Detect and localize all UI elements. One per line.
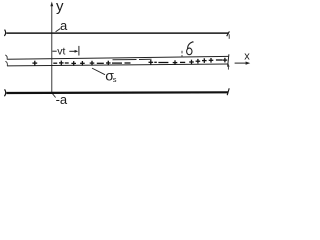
sheet right end tick xyxy=(228,54,229,66)
sigma_s leader line xyxy=(92,68,105,75)
plus 7 xyxy=(149,60,154,65)
svg-text:s: s xyxy=(113,75,117,84)
delta dimension upper stub xyxy=(228,34,230,39)
vt end tick xyxy=(78,46,80,56)
long minus xyxy=(112,62,122,64)
plus 5 xyxy=(90,61,95,66)
plus 9 xyxy=(189,60,194,65)
delta dimension lower arrow xyxy=(227,64,229,70)
charged sheet bottom surface xyxy=(7,64,228,66)
bottom electrode at y=-a xyxy=(6,91,228,94)
charged sheet top surface xyxy=(7,56,228,59)
charge symbols in sheet xyxy=(32,58,227,66)
svg-text:y: y xyxy=(56,0,64,15)
plus 11 xyxy=(202,58,207,63)
minus xyxy=(53,62,57,64)
svg-text:a: a xyxy=(60,18,68,33)
y-axis xyxy=(52,4,56,98)
extra dash row (doubled line look, middle of sheet) xyxy=(113,58,152,61)
plus 12 xyxy=(209,58,214,63)
sheet top left tick xyxy=(5,55,7,60)
label delta xyxy=(187,42,194,55)
sheet bottom left tick xyxy=(5,61,7,66)
y-axis arrowhead xyxy=(50,2,53,7)
minus xyxy=(65,62,69,64)
svg-text:vt: vt xyxy=(57,46,65,58)
x-axis arrow xyxy=(235,62,249,64)
plus 4 xyxy=(80,61,85,66)
top electrode left end hook xyxy=(4,30,5,36)
vt arrow shaft xyxy=(69,50,77,52)
bottom electrode right end tick xyxy=(227,88,229,95)
top electrode at y=a xyxy=(6,32,228,34)
plus 10 xyxy=(196,59,201,64)
small dash xyxy=(154,61,157,63)
plus 6 xyxy=(106,61,111,66)
vt arrowhead xyxy=(75,50,79,53)
minus xyxy=(216,59,223,61)
svg-text:x: x xyxy=(244,51,250,63)
plus 13 xyxy=(223,58,228,63)
plus 1 xyxy=(32,61,37,66)
plus 2 xyxy=(59,61,64,66)
minus xyxy=(97,62,104,64)
vt dimension: dash from axis xyxy=(52,50,56,52)
svg-text:-a: -a xyxy=(56,92,68,107)
top electrode right end tick xyxy=(227,31,230,36)
minus xyxy=(180,61,185,63)
plus 3 xyxy=(71,61,76,66)
delta pointer arrow (dashed, pointing down to sheet) xyxy=(181,51,183,58)
long minus xyxy=(125,62,131,64)
x-axis arrowhead xyxy=(246,62,251,65)
bottom electrode left end hook xyxy=(4,89,5,96)
plus 8 xyxy=(173,60,178,65)
leader tick to a xyxy=(56,29,61,32)
minus xyxy=(158,62,168,64)
